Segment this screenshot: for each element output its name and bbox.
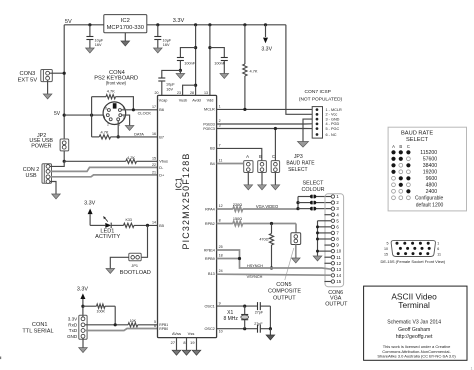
svg-text:Vbus: Vbus [159,160,168,164]
svg-text:11: 11 [219,159,223,163]
svg-text:2400: 2400 [426,189,438,195]
svg-text:1 - MCLR: 1 - MCLR [326,108,343,112]
svg-text:CLOCK: CLOCK [138,111,152,116]
svg-text:MCP1700-330: MCP1700-330 [107,25,144,31]
svg-text:470Ω: 470Ω [259,238,268,242]
svg-text:RPB9: RPB9 [205,257,215,261]
svg-text:10K: 10K [130,319,137,323]
svg-text:21: 21 [152,170,156,174]
svg-text:C: C [407,144,410,149]
svg-text:3.3V: 3.3V [84,200,95,206]
svg-text:COMPOSITE: COMPOSITE [268,289,301,295]
svg-text:Geoff Graham: Geoff Graham [398,327,430,333]
svg-text:16V: 16V [163,43,170,47]
svg-text:EXT 5V: EXT 5V [18,77,38,83]
svg-text:6 - NC: 6 - NC [326,133,337,137]
svg-text:10: 10 [219,330,223,334]
svg-text:20: 20 [155,91,159,95]
svg-text:Avdd: Avdd [192,99,201,103]
svg-text:23: 23 [177,91,181,95]
svg-text:1: 1 [119,122,121,126]
svg-text:10: 10 [336,249,341,254]
svg-text:1: 1 [219,105,221,109]
svg-text:5: 5 [387,242,389,246]
svg-text:19: 19 [190,340,194,345]
svg-text:BAUD RATE: BAUD RATE [401,131,433,137]
svg-text:B5: B5 [159,224,164,228]
svg-text:Terminal: Terminal [398,300,430,310]
svg-text:BOOTLOAD: BOOTLOAD [120,270,151,276]
svg-text:Configurable: Configurable [415,196,444,202]
svg-text:1: 1 [437,242,439,246]
svg-text:16V: 16V [95,43,102,47]
svg-text:10µF: 10µF [166,83,175,87]
svg-text:VSYNCH: VSYNCH [247,275,263,279]
svg-text:4.7K: 4.7K [100,130,108,135]
svg-text:default 1200: default 1200 [416,203,444,209]
svg-text:Vdd: Vdd [207,99,214,103]
svg-text:15: 15 [152,157,156,161]
svg-text:B7: B7 [159,135,164,139]
svg-text:MCLR: MCLR [204,108,215,112]
svg-text:57600: 57600 [423,156,438,162]
svg-text:http://geoffg.net: http://geoffg.net [396,334,433,340]
svg-text:B: B [399,144,402,149]
svg-text:4.7K: 4.7K [127,155,135,160]
svg-text:16V: 16V [166,87,173,91]
svg-text:RPB14: RPB14 [204,248,215,252]
svg-text:CON 2: CON 2 [23,167,39,173]
svg-text:DATA: DATA [134,131,144,136]
svg-text:RPB2: RPB2 [205,222,215,226]
svg-text:25: 25 [219,245,223,249]
svg-text:D+: D+ [159,173,165,177]
svg-text:TxD: TxD [69,328,78,333]
svg-text:9: 9 [219,301,221,305]
svg-text:5V: 5V [54,111,61,117]
svg-text:COLOUR: COLOUR [301,187,324,193]
svg-text:4 - PGD: 4 - PGD [326,122,340,126]
svg-text:AVss: AVss [172,331,181,336]
svg-text:11: 11 [336,255,341,260]
svg-text:Vusb: Vusb [179,99,188,103]
svg-text:27pF: 27pF [254,322,263,326]
svg-text:6: 6 [105,106,107,110]
svg-text:POWER: POWER [31,143,51,149]
svg-text:B6: B6 [159,108,164,112]
svg-text:K33: K33 [125,218,131,222]
svg-text:IC2: IC2 [121,18,130,24]
svg-text:12: 12 [336,261,341,266]
svg-text:OUTPUT: OUTPUT [273,295,296,301]
svg-text:2 - Vcc: 2 - Vcc [326,113,338,117]
svg-text:CON7 ICSP: CON7 ICSP [305,89,331,95]
svg-text:12: 12 [219,204,223,208]
svg-text:15: 15 [336,279,341,284]
svg-text:DE-15S (Female Socket Front V: DE-15S (Female Socket Front View) [380,259,445,264]
svg-text:CON1: CON1 [32,322,48,328]
svg-text:100K: 100K [96,309,105,313]
svg-text:B13: B13 [208,272,215,276]
svg-text:8: 8 [183,340,185,345]
svg-text:PIC32MX250F128B: PIC32MX250F128B [181,153,191,250]
svg-text:Vss: Vss [188,331,195,336]
svg-text:BAUD RATE: BAUD RATE [286,160,315,166]
svg-text:OSC1: OSC1 [204,304,214,308]
svg-text:14: 14 [152,221,156,225]
svg-text:SELECT: SELECT [406,137,429,143]
svg-text:Schematic V3 Jan 2014: Schematic V3 Jan 2014 [387,319,441,325]
svg-text:10: 10 [384,247,388,251]
svg-text:VGA VIDEO: VGA VIDEO [256,204,278,209]
svg-text:3.3V: 3.3V [68,316,78,321]
svg-text:3 - GND: 3 - GND [326,117,340,121]
svg-text:CON3: CON3 [19,71,35,77]
svg-text:2: 2 [219,119,221,123]
svg-text:1: 1 [471,367,473,370]
svg-text:38400: 38400 [423,163,438,169]
svg-text:SELECT: SELECT [288,167,307,173]
svg-text:15: 15 [384,252,388,256]
svg-text:220Ω: 220Ω [233,203,242,207]
svg-text:5V: 5V [65,19,72,25]
svg-text:100nF: 100nF [184,62,195,66]
svg-text:JP3: JP3 [294,154,303,160]
svg-text:4.7K: 4.7K [107,89,115,94]
svg-text:100nF: 100nF [214,62,225,66]
svg-text:3: 3 [123,115,125,119]
svg-text:11: 11 [437,252,441,256]
svg-text:4: 4 [104,115,106,119]
svg-text:(NOT POPULATED): (NOT POPULATED) [299,97,343,103]
svg-text:28: 28 [190,91,194,95]
svg-text:A: A [392,144,395,149]
svg-text:4800: 4800 [426,182,438,188]
svg-text:A: A [246,154,249,159]
svg-text:6: 6 [154,324,156,328]
svg-text:9600: 9600 [426,176,438,182]
svg-text:13: 13 [204,91,208,95]
svg-text:4.7K: 4.7K [250,69,258,74]
svg-text:18: 18 [219,254,223,258]
svg-text:JP1: JP1 [131,264,138,268]
svg-text:14: 14 [336,273,341,278]
svg-text:150Ω: 150Ω [233,217,242,221]
svg-text:GND: GND [67,334,78,339]
svg-text:8 MHz: 8 MHz [223,316,238,322]
svg-text:27: 27 [171,340,175,345]
svg-text:17: 17 [152,105,156,109]
svg-text:RPA4: RPA4 [205,207,215,211]
svg-text:22: 22 [152,163,156,167]
svg-text:10µF: 10µF [163,38,172,42]
svg-text:2: 2 [107,122,109,126]
svg-text:USB: USB [25,173,36,179]
svg-text:Vcap: Vcap [159,99,168,103]
svg-text:7: 7 [219,144,221,148]
svg-text:ACTIVITY: ACTIVITY [95,234,120,240]
svg-text:3.3V: 3.3V [173,18,185,24]
svg-text:ShareAlike 3.0 Australia (CC B: ShareAlike 3.0 Australia (CC BY-NC-SA 3.… [377,354,456,359]
svg-text:RxD: RxD [68,322,78,327]
svg-text:PGEC3: PGEC3 [203,127,215,131]
svg-text:19200: 19200 [423,169,438,175]
svg-text:TTL SERIAL: TTL SERIAL [22,329,53,335]
svg-text:HSYNCH: HSYNCH [247,264,263,268]
svg-text:115200: 115200 [420,150,437,156]
svg-text:(front view): (front view) [106,80,127,85]
svg-text:C: C [272,154,275,159]
svg-text:8: 8 [219,219,221,223]
svg-text:RPB0: RPB0 [159,327,168,331]
svg-text:3.3V: 3.3V [261,47,272,53]
svg-text:B3: B3 [210,147,215,151]
svg-text:PGED3: PGED3 [203,122,215,126]
svg-text:24: 24 [219,269,223,273]
svg-text:OSC2: OSC2 [204,327,214,331]
svg-text:B4: B4 [210,162,215,166]
svg-text:5 - PGC: 5 - PGC [326,127,340,131]
svg-text:CON5: CON5 [276,282,291,288]
svg-text:16: 16 [152,132,156,136]
svg-text:SELECT: SELECT [303,181,325,187]
svg-text:3.3V: 3.3V [77,286,88,292]
svg-text:10µF: 10µF [95,38,104,42]
svg-text:OUTPUT: OUTPUT [325,302,348,308]
svg-text:27pF: 27pF [255,310,264,314]
svg-text:13: 13 [336,267,341,272]
svg-text:6: 6 [437,247,439,251]
